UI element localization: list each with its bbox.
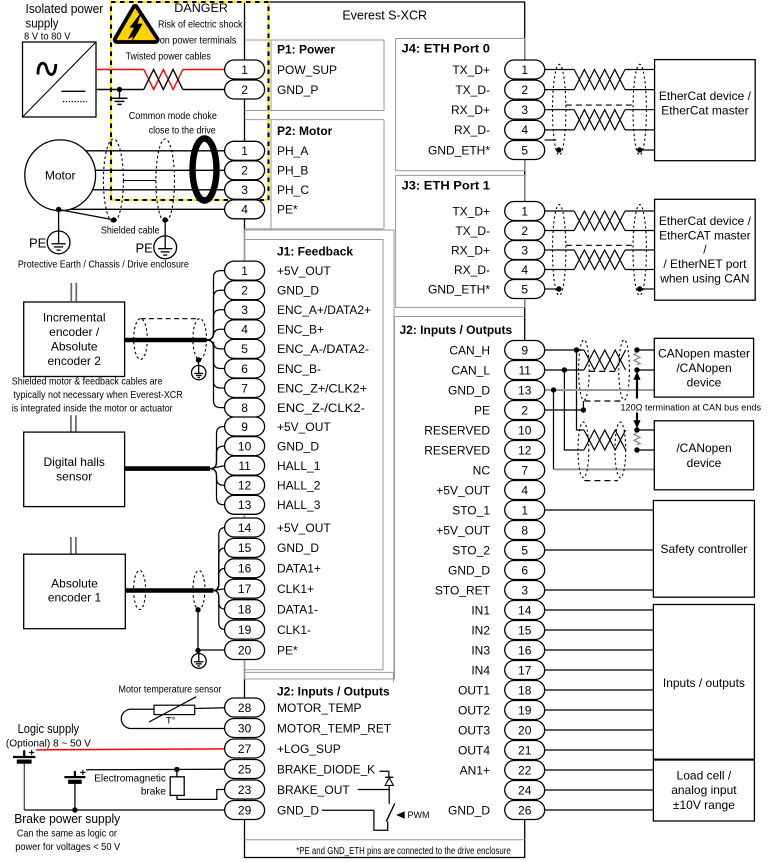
svg-text:GND_ETH*: GND_ETH* bbox=[428, 143, 490, 157]
svg-text:POW_SUP: POW_SUP bbox=[277, 63, 337, 77]
shield drain dashed (encoder2) bbox=[141, 318, 200, 320]
wire IN/OUT row 4 bbox=[545, 669, 654, 671]
connector P2 pin 3 bbox=[225, 180, 265, 199]
svg-text:±10V range: ±10V range bbox=[673, 798, 735, 812]
svg-text:GND_D: GND_D bbox=[277, 803, 319, 817]
connector J3 pin 5 bbox=[505, 280, 545, 299]
connector J2 pin 12 bbox=[505, 441, 545, 460]
svg-text:PH_A: PH_A bbox=[277, 144, 308, 158]
connector J1 pin 5 bbox=[225, 339, 265, 358]
wire MOTOR_TEMP_RET loop bbox=[121, 709, 225, 728]
svg-text:T°: T° bbox=[166, 716, 176, 727]
wire CAN_H into cable1 bbox=[577, 349, 585, 351]
svg-text:10: 10 bbox=[238, 439, 252, 453]
svg-text:OUT1: OUT1 bbox=[458, 683, 490, 697]
svg-text:is integrated inside the motor: is integrated inside the motor or actuat… bbox=[12, 402, 173, 414]
signal ground symbol bbox=[112, 90, 128, 105]
svg-text:(Optional) 8 ~ 50 V: (Optional) 8 ~ 50 V bbox=[6, 739, 91, 750]
svg-text:18: 18 bbox=[238, 603, 252, 617]
connector J2 pin 6 bbox=[505, 561, 545, 580]
connector group box J4 bbox=[396, 39, 525, 171]
svg-text:sensor: sensor bbox=[56, 470, 92, 484]
svg-text:RESERVED: RESERVED bbox=[424, 423, 490, 437]
connector J1 pin 17 bbox=[225, 579, 265, 598]
connector J2 pin 13 bbox=[505, 381, 545, 400]
svg-text:device: device bbox=[687, 456, 722, 470]
connector J4 pin 3 bbox=[505, 100, 545, 119]
CANopen device box bbox=[654, 421, 753, 490]
junction dot motor PE bbox=[56, 207, 61, 212]
connector J2 pin 16 bbox=[505, 641, 545, 660]
svg-text:on power terminals: on power terminals bbox=[160, 35, 237, 47]
svg-text:MOTOR_TEMP_RET: MOTOR_TEMP_RET bbox=[277, 721, 392, 735]
svg-text:Can the same as logic or: Can the same as logic or bbox=[17, 827, 117, 839]
connector group box J1 inner bbox=[245, 240, 384, 670]
wire CAN_H branch down bbox=[577, 350, 585, 430]
wire POW_SUP red from converter bbox=[96, 69, 144, 71]
svg-text:8: 8 bbox=[521, 523, 528, 537]
feedback cable (encoder 2) thick bbox=[125, 338, 207, 343]
connector J4 pin 4 bbox=[505, 120, 545, 139]
svg-text:GND_P: GND_P bbox=[277, 83, 318, 97]
svg-text:+5V_OUT: +5V_OUT bbox=[436, 523, 490, 537]
svg-text:DANGER: DANGER bbox=[174, 1, 228, 15]
svg-text:EtherCat device /: EtherCat device / bbox=[659, 214, 752, 228]
danger zone dashed border (yellow) bbox=[111, 2, 269, 200]
common mode choke L1 bbox=[193, 139, 217, 201]
svg-text:2: 2 bbox=[241, 284, 248, 298]
svg-text:PE*: PE* bbox=[277, 203, 298, 217]
wire PE* to pin4 bbox=[59, 208, 225, 210]
svg-text:Load cell /: Load cell / bbox=[677, 769, 732, 783]
svg-text:CLK1-: CLK1- bbox=[277, 623, 311, 637]
svg-text:11: 11 bbox=[238, 459, 251, 473]
svg-text:RX_D-: RX_D- bbox=[454, 263, 490, 277]
connector J2 pin 9 bbox=[505, 341, 545, 360]
connector J1 pin 9 bbox=[225, 417, 265, 436]
connector J2 pin 11 bbox=[505, 361, 545, 380]
connector P1 pin 2 bbox=[225, 80, 265, 99]
svg-text:20: 20 bbox=[518, 723, 532, 737]
junction dot brake coil feed bbox=[174, 767, 179, 772]
CAN cable 1 twisted pair bbox=[584, 350, 626, 370]
wire PE pin2 to shield bbox=[545, 409, 584, 411]
shield ellipse (motor cable, left) bbox=[103, 139, 123, 222]
svg-text:+5V_OUT: +5V_OUT bbox=[277, 264, 331, 278]
wire IN/OUT row 6 bbox=[545, 709, 654, 711]
fan-out wires encoder1 to J1 pins 14-19 bbox=[213, 528, 226, 630]
connector J2 pin 19 bbox=[505, 701, 545, 720]
svg-text:ENC_A+/DATA2+: ENC_A+/DATA2+ bbox=[277, 303, 371, 317]
svg-text:5: 5 bbox=[521, 143, 528, 157]
flyback diode D1 bbox=[385, 777, 393, 785]
svg-text:28: 28 bbox=[238, 701, 252, 715]
wire thermistor to pin28 bbox=[195, 707, 225, 710]
junction dot encoder1 drain bottom bbox=[195, 648, 200, 653]
svg-text:PE: PE bbox=[136, 240, 154, 255]
wire diode to switch contact bbox=[388, 785, 390, 803]
svg-text:NC: NC bbox=[473, 463, 491, 477]
connector J1 pin 7 bbox=[225, 379, 265, 398]
wire drain to J1 pin20 bbox=[198, 649, 225, 651]
svg-text:12: 12 bbox=[518, 443, 532, 457]
svg-text:3: 3 bbox=[521, 243, 528, 257]
svg-text:TX_D+: TX_D+ bbox=[452, 204, 490, 218]
svg-text:BRAKE_DIODE_K: BRAKE_DIODE_K bbox=[277, 762, 375, 776]
ethercat device box 2 bbox=[655, 199, 756, 300]
wire GND_P black to pin2 bbox=[183, 89, 225, 91]
svg-text:4: 4 bbox=[521, 483, 528, 497]
svg-text:13: 13 bbox=[238, 498, 252, 512]
svg-text:AN1+: AN1+ bbox=[460, 763, 490, 777]
svg-text:2: 2 bbox=[521, 224, 528, 238]
wire battery2 negative down bbox=[74, 784, 76, 810]
svg-text:CAN_H: CAN_H bbox=[449, 343, 490, 357]
wire STO_1 bbox=[545, 509, 654, 511]
connector J1 pin 16 bbox=[225, 559, 265, 578]
svg-text:Electromagnetic: Electromagnetic bbox=[94, 773, 166, 784]
svg-text:Digital halls: Digital halls bbox=[44, 455, 105, 469]
connector J2 pin 1 bbox=[505, 501, 545, 520]
PWM switch blade bbox=[386, 804, 395, 822]
wire BRAKE_OUT to switch bbox=[358, 789, 390, 791]
junction dot shield 2 bbox=[163, 217, 168, 222]
electromagnetic brake coil bbox=[170, 769, 184, 795]
connector J2 pin 22 bbox=[505, 761, 545, 780]
svg-text:RESERVED: RESERVED bbox=[424, 443, 490, 457]
svg-text:IN2: IN2 bbox=[471, 623, 490, 637]
svg-text:8 V to 80 V: 8 V to 80 V bbox=[24, 32, 71, 43]
svg-text:16: 16 bbox=[518, 643, 532, 657]
svg-text:23: 23 bbox=[238, 783, 252, 797]
svg-text:Twisted power cables: Twisted power cables bbox=[126, 51, 211, 63]
connector group box P2 bbox=[245, 120, 385, 229]
connector J2 pin 28 bbox=[225, 698, 265, 717]
svg-text:5: 5 bbox=[521, 282, 528, 296]
connection mark encoder 1 bbox=[71, 537, 76, 554]
shield dashed CAN1 bbox=[589, 370, 618, 372]
svg-text:Motor: Motor bbox=[45, 168, 76, 182]
wire pin24 bbox=[545, 789, 654, 791]
svg-text:DATA1-: DATA1- bbox=[277, 603, 318, 617]
svg-text:OUT4: OUT4 bbox=[458, 743, 490, 757]
svg-text:13: 13 bbox=[518, 383, 532, 397]
footnote divider bbox=[245, 839, 525, 841]
connector group box J2 left bbox=[245, 672, 394, 682]
connector J2 pin 3 bbox=[505, 581, 545, 600]
svg-text:16: 16 bbox=[238, 562, 252, 576]
svg-text:PH_B: PH_B bbox=[277, 164, 308, 178]
svg-text:CLK1+: CLK1+ bbox=[277, 582, 314, 596]
connector J2 pin 29 bbox=[225, 801, 265, 820]
svg-text:IN1: IN1 bbox=[471, 603, 490, 617]
svg-text:CANopen master: CANopen master bbox=[658, 346, 750, 360]
svg-text:1: 1 bbox=[241, 144, 248, 158]
shield ellipse encoder1 left bbox=[134, 571, 146, 610]
connector J1 pin 1 bbox=[225, 261, 265, 280]
svg-text:2: 2 bbox=[241, 164, 248, 178]
junction dot PE shield bbox=[581, 407, 586, 412]
svg-text:120Ω termination at CAN bus en: 120Ω termination at CAN bus ends bbox=[621, 403, 762, 414]
junction dot CAN_L bbox=[562, 367, 567, 372]
connector J1 pin 2 bbox=[225, 281, 265, 300]
svg-text:TX_D-: TX_D- bbox=[455, 83, 490, 97]
wire motor to PE symbol bbox=[58, 210, 60, 232]
shield ellipse CAN2 right bbox=[615, 422, 626, 478]
wire GND_D pin26 bbox=[545, 809, 654, 811]
svg-text:Common mode choke: Common mode choke bbox=[129, 110, 217, 122]
connector J2 pin 14 bbox=[505, 601, 545, 620]
connector J2 pin 18 bbox=[505, 681, 545, 700]
svg-text:Protective Earth / Chassis / D: Protective Earth / Chassis / Drive enclo… bbox=[18, 259, 189, 271]
wire AN1+ bbox=[545, 769, 654, 771]
connector J2 pin 26 bbox=[505, 801, 545, 820]
feedback cable (halls) thick bbox=[125, 466, 210, 471]
safety controller box bbox=[653, 501, 754, 598]
connector P2 pin 2 bbox=[225, 161, 265, 180]
svg-text:1: 1 bbox=[241, 63, 248, 77]
protective earth symbol PE1 bbox=[47, 231, 70, 254]
svg-text:+: + bbox=[29, 747, 35, 759]
connector group box P1 bbox=[245, 40, 385, 111]
junction dot on GND_P bbox=[117, 87, 122, 92]
CANopen master box bbox=[654, 338, 753, 397]
junction dot CAN1 term bottom bbox=[634, 367, 639, 372]
svg-text:Everest S-XCR: Everest S-XCR bbox=[342, 9, 427, 23]
connector J2 pin 5 bbox=[505, 541, 545, 560]
svg-text:TX_D-: TX_D- bbox=[455, 224, 490, 238]
svg-text:14: 14 bbox=[238, 521, 252, 535]
shield ellipse CAN1 right bbox=[619, 340, 630, 400]
wire motor PE to shield bbox=[59, 210, 114, 220]
svg-text:encoder 2: encoder 2 bbox=[48, 354, 102, 368]
svg-text:14: 14 bbox=[518, 603, 532, 617]
svg-text:/ EtherNET port: / EtherNET port bbox=[663, 257, 747, 271]
connection mark halls bbox=[71, 415, 76, 431]
svg-text:4: 4 bbox=[241, 323, 248, 337]
svg-text:22: 22 bbox=[518, 763, 532, 777]
termination down arrow bbox=[636, 413, 638, 421]
svg-text:OUT3: OUT3 bbox=[458, 723, 490, 737]
svg-text:Incremental: Incremental bbox=[43, 311, 106, 325]
junction dot CAN2 term bottom bbox=[634, 447, 639, 452]
svg-text:EtherCAT master: EtherCAT master bbox=[659, 228, 751, 242]
terminator resistor R2 120ohm bbox=[634, 433, 640, 446]
incremental encoder / absolute encoder 2 box bbox=[24, 302, 125, 377]
svg-text:RX_D+: RX_D+ bbox=[451, 103, 490, 117]
shield ellipse encoder2 right bbox=[193, 319, 207, 360]
svg-text:GND_D: GND_D bbox=[448, 803, 490, 817]
svg-text:J2: Inputs / Outputs: J2: Inputs / Outputs bbox=[277, 685, 390, 699]
svg-text:MOTOR_TEMP: MOTOR_TEMP bbox=[277, 701, 361, 715]
connector J3 pin 3 bbox=[505, 241, 545, 260]
svg-text:IN3: IN3 bbox=[471, 643, 490, 657]
svg-text:PE*: PE* bbox=[277, 643, 298, 657]
wire GND bus branch down bbox=[553, 390, 555, 469]
connector J2 pin 17 bbox=[505, 661, 545, 680]
junction dot shield 1 bbox=[111, 217, 116, 222]
svg-text:27: 27 bbox=[238, 742, 252, 756]
connector J2 pin 24 bbox=[505, 781, 545, 800]
svg-text:TX_D+: TX_D+ bbox=[452, 63, 490, 77]
connector J2 pin 8 bbox=[505, 521, 545, 540]
wire IN/OUT row 1 bbox=[545, 609, 654, 611]
connector group box J3 bbox=[396, 175, 525, 307]
svg-text:1: 1 bbox=[521, 503, 528, 517]
svg-text:PWM: PWM bbox=[408, 810, 430, 820]
wire CAN_L into cable1 bbox=[564, 369, 584, 371]
wire PH_B bbox=[95, 169, 225, 171]
wire switch to GND return bbox=[374, 810, 388, 830]
svg-text:15: 15 bbox=[518, 623, 532, 637]
wire brake coil to pin23 bbox=[177, 790, 225, 800]
svg-text:J1: Feedback: J1: Feedback bbox=[277, 245, 353, 259]
svg-text:3: 3 bbox=[241, 183, 248, 197]
connector J2 pin 23 bbox=[225, 780, 265, 799]
svg-text:IN4: IN4 bbox=[471, 663, 490, 677]
connector J1 pin 12 bbox=[225, 476, 265, 495]
svg-text:19: 19 bbox=[238, 623, 252, 637]
svg-text:OUT2: OUT2 bbox=[458, 703, 490, 717]
connector J3 pin 4 bbox=[505, 260, 545, 279]
svg-text:GND_D: GND_D bbox=[277, 439, 319, 453]
connector P2 pin 4 bbox=[225, 200, 265, 219]
connector J1 pin 20 bbox=[225, 641, 265, 660]
svg-text:PE: PE bbox=[474, 403, 490, 417]
wire IN/OUT row 3 bbox=[545, 649, 654, 651]
svg-text:Isolated power: Isolated power bbox=[26, 2, 104, 16]
connector J2 pin 10 bbox=[505, 421, 545, 440]
svg-text:20: 20 bbox=[238, 643, 252, 657]
svg-text:Safety controller: Safety controller bbox=[661, 542, 748, 556]
svg-text:J2: Inputs / Outputs: J2: Inputs / Outputs bbox=[400, 323, 513, 337]
junction dot CAN2 term top bbox=[634, 427, 639, 432]
wire CAN2 L to device box bbox=[637, 449, 654, 451]
wire brake battery to pin25 bbox=[86, 768, 225, 771]
inputs / outputs box bbox=[653, 605, 754, 760]
svg-text:ENC_B-: ENC_B- bbox=[277, 362, 321, 376]
connector J3 pin 2 bbox=[505, 221, 545, 240]
svg-text:encoder /: encoder / bbox=[49, 325, 100, 339]
svg-text:P2: Motor: P2: Motor bbox=[277, 124, 333, 138]
termination up arrow bbox=[636, 380, 638, 399]
svg-text:Risk of electric shock: Risk of electric shock bbox=[158, 19, 243, 31]
wire CAN_L pin11 to junction bbox=[545, 369, 565, 371]
wire CAN1 L to master box bbox=[637, 369, 654, 371]
svg-text:5: 5 bbox=[521, 543, 528, 557]
connector J2 pin 21 bbox=[505, 741, 545, 760]
thermistor RT1 bbox=[149, 697, 196, 727]
battery B2 (brake supply) bbox=[64, 767, 85, 782]
CAN cable 2 twisted pair bbox=[584, 430, 626, 450]
svg-text:1: 1 bbox=[521, 63, 528, 77]
connector J2 pin 7 bbox=[505, 461, 545, 480]
svg-text:/CANopen: /CANopen bbox=[676, 361, 731, 375]
svg-text:9: 9 bbox=[241, 420, 248, 434]
junction dot battery2 gnd bbox=[72, 807, 77, 812]
load cell box bbox=[653, 760, 754, 821]
svg-text:BRAKE_OUT: BRAKE_OUT bbox=[277, 783, 350, 797]
connector J2 pin 30 bbox=[225, 719, 265, 738]
connector J2 pin 4 bbox=[505, 481, 545, 500]
terminator resistor R1 120ohm bbox=[634, 353, 640, 366]
svg-text:analog input: analog input bbox=[671, 783, 737, 797]
svg-text:CAN_L: CAN_L bbox=[451, 363, 490, 377]
connector J4 pin 5 bbox=[505, 141, 545, 160]
svg-text:2: 2 bbox=[521, 403, 528, 417]
connector J1 pin 10 bbox=[225, 437, 265, 456]
shield dashed CAN2 bottom bbox=[584, 480, 618, 482]
wire IN/OUT row 7 bbox=[545, 729, 654, 731]
svg-text:15: 15 bbox=[238, 541, 252, 555]
wire IN/OUT row 2 bbox=[545, 629, 654, 631]
wire drain encoder1 bbox=[197, 610, 199, 651]
svg-text:9: 9 bbox=[521, 343, 528, 357]
connector J2 pin 25 bbox=[225, 760, 265, 779]
svg-text:*PE and GND_ETH pins are conne: *PE and GND_ETH pins are connected to th… bbox=[296, 846, 511, 857]
wire CAN2 H to device box bbox=[637, 429, 654, 431]
svg-text:Absolute: Absolute bbox=[51, 340, 98, 354]
svg-text:30: 30 bbox=[238, 721, 252, 735]
connector J1 pin 3 bbox=[225, 300, 265, 319]
wire CAN_H pin9 to junction bbox=[545, 349, 577, 351]
connector J1 pin 6 bbox=[225, 359, 265, 378]
danger zone dashed border (black dashes) bbox=[111, 2, 269, 200]
svg-text:device: device bbox=[687, 375, 722, 389]
svg-text:GND_D: GND_D bbox=[277, 541, 319, 555]
wire GND_D pin13 bus (gray) bbox=[545, 389, 655, 391]
svg-text:RX_D+: RX_D+ bbox=[451, 243, 490, 257]
svg-text:19: 19 bbox=[518, 703, 532, 717]
junction dot CAN_H bbox=[574, 347, 579, 352]
warning triangle W1 bbox=[115, 6, 158, 42]
svg-text:5: 5 bbox=[241, 342, 248, 356]
svg-text:2: 2 bbox=[241, 83, 248, 97]
svg-text:Shielded cable: Shielded cable bbox=[101, 225, 160, 237]
svg-text:Absolute: Absolute bbox=[51, 576, 98, 590]
shield ellipse CAN2 left bbox=[578, 422, 589, 478]
connector J1 pin 13 bbox=[225, 495, 265, 514]
wire IN/OUT row 8 bbox=[545, 749, 654, 751]
svg-text:typically not necessary when E: typically not necessary when Everest-XCR bbox=[14, 389, 184, 401]
svg-text:6: 6 bbox=[241, 362, 248, 376]
shield dashed CAN2 top bbox=[584, 400, 621, 402]
svg-text:7: 7 bbox=[521, 463, 528, 477]
svg-text:when using CAN: when using CAN bbox=[659, 271, 749, 285]
wire +LOG_SUP red bbox=[36, 749, 225, 750]
svg-text:ENC_Z+/CLK2+: ENC_Z+/CLK2+ bbox=[277, 381, 367, 395]
svg-text:STO_1: STO_1 bbox=[452, 503, 490, 517]
fan-out wires encoder2 to J1 pins 1-8 bbox=[207, 271, 225, 408]
shield ellipse encoder2 left bbox=[134, 319, 148, 360]
svg-text:ENC_Z-/CLK2-: ENC_Z-/CLK2- bbox=[277, 401, 365, 415]
wire drain to PE (encoder2) bbox=[198, 360, 200, 366]
svg-text:3: 3 bbox=[521, 103, 528, 117]
digital halls sensor box bbox=[24, 432, 125, 507]
junction dot CAN1 term top bbox=[634, 347, 639, 352]
battery B1 (logic supply) bbox=[13, 747, 35, 762]
svg-text:3: 3 bbox=[521, 583, 528, 597]
wire GND_D pin29 to switch bbox=[322, 809, 374, 811]
shield ellipse encoder1 right bbox=[193, 571, 205, 610]
junction dot encoder1 drain top bbox=[195, 607, 200, 612]
connector J2 pin 20 bbox=[505, 721, 545, 740]
connector J1 pin 11 bbox=[225, 456, 265, 475]
svg-text:STO_2: STO_2 bbox=[452, 543, 490, 557]
svg-text:Brake power supply: Brake power supply bbox=[14, 811, 120, 826]
svg-text:J3: ETH Port 1: J3: ETH Port 1 bbox=[402, 179, 491, 193]
protective earth symbol (encoder1 drain) bbox=[191, 654, 206, 669]
